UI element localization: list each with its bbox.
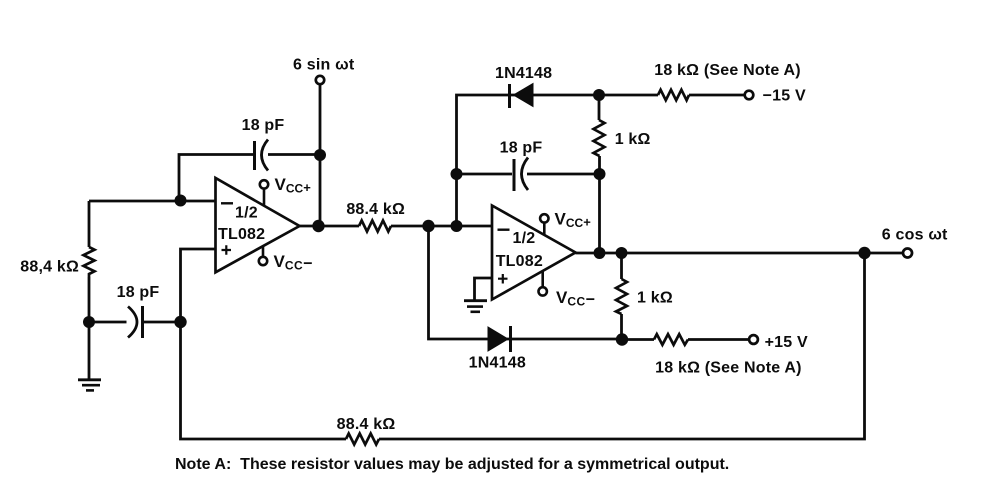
op-amp U1 1/2 TL082 [216, 178, 300, 272]
svg-text:18 kΩ (See Note A): 18 kΩ (See Note A) [654, 62, 801, 79]
svg-text:1/2: 1/2 [235, 205, 258, 222]
resistor 18 kOhm (lower, See Note A) [654, 334, 802, 376]
node junction mid cap left [451, 168, 463, 180]
svg-text:88,4 kΩ: 88,4 kΩ [20, 259, 79, 276]
svg-text:TL082: TL082 [218, 226, 265, 243]
pin VCC- U1 [259, 246, 313, 273]
wire U1 output to R mid [300, 225, 493, 228]
resistor 88.4 kOhm (bottom feedback) [337, 416, 396, 445]
diode D2 1N4148 (lower) [469, 326, 526, 372]
svg-text:1N4148: 1N4148 [469, 355, 526, 372]
pin VCC+ U2 [540, 210, 591, 235]
pin VCC- U2 [539, 271, 596, 309]
terminal -15 V [745, 88, 806, 105]
ground symbol left [78, 380, 101, 391]
op-amp U2 1/2 TL082 [492, 206, 576, 300]
wire 1 kOhm lower branch [620, 253, 623, 339]
node junction U1 output [312, 220, 324, 232]
resistor 88,4 kOhm (left) [20, 247, 94, 277]
terminal +15 V [749, 334, 808, 351]
terminal 6 sin wt [293, 57, 355, 85]
svg-text:88.4 kΩ: 88.4 kΩ [337, 416, 396, 433]
svg-text:88.4 kΩ: 88.4 kΩ [346, 201, 405, 218]
svg-text:−15 V: −15 V [763, 88, 806, 105]
pin VCC+ U1 [260, 175, 311, 205]
wire upper branch vertical and top diode row [457, 95, 600, 226]
node junction left cap row [83, 316, 95, 328]
resistor 1 kOhm (lower) [616, 279, 673, 314]
wire ground lead left [88, 322, 91, 380]
wire left branch vertical [88, 201, 91, 322]
svg-text:6 cos ωt: 6 cos ωt [882, 227, 948, 244]
svg-text:1 kΩ: 1 kΩ [637, 290, 673, 307]
capacitor C2 18 pF (lower left) [117, 284, 160, 338]
terminal 6 cos wt [882, 227, 948, 258]
wire sin terminal to op-amp U1 output node [319, 85, 322, 226]
wire U2 output row [576, 252, 903, 255]
svg-text:1N4148: 1N4148 [495, 65, 552, 82]
node junction cos branch [858, 247, 870, 259]
wire top row to -15V [599, 94, 745, 97]
node junction cap branch left [451, 220, 463, 232]
capacitor C3 18 pF (U2 feedback) [500, 140, 543, 192]
ground symbol U2 [464, 301, 487, 312]
svg-text:+15 V: +15 V [765, 334, 808, 351]
diode D1 1N4148 (upper) [495, 65, 552, 108]
wire lower diode branch [429, 226, 623, 339]
node junction top row [593, 89, 605, 101]
wire noninverting input U1 down and bottom feedback run [181, 249, 865, 439]
resistor 18 kOhm (upper, See Note A) [654, 62, 801, 100]
wire U2 noninverting to ground [475, 278, 493, 300]
resistor 1 kOhm (upper) [594, 120, 651, 156]
node junction C1 right at sin wire [314, 149, 326, 161]
svg-text:6 sin ωt: 6 sin ωt [293, 57, 355, 74]
svg-text:TL082: TL082 [496, 253, 543, 270]
svg-text:18 pF: 18 pF [242, 117, 285, 134]
wire 1 kOhm branch vertical [598, 95, 601, 253]
svg-text:18 pF: 18 pF [500, 140, 543, 157]
capacitor C1 18 pF (top feedback) [242, 117, 285, 171]
node junction mid cap right [594, 168, 606, 180]
svg-text:18 kΩ (See Note A): 18 kΩ (See Note A) [655, 360, 802, 377]
wire lower row to +15V [622, 338, 749, 341]
note A text [175, 456, 729, 473]
svg-text:18 pF: 18 pF [117, 284, 160, 301]
node junction output left [594, 247, 606, 259]
wire top feedback (cap C1 row) [179, 155, 320, 202]
wire inverting input U1 [89, 200, 216, 203]
svg-text:Note A: These resistor values: Note A: These resistor values may be adj… [175, 456, 729, 473]
node junction C2 right [174, 316, 186, 328]
node junction output right [616, 247, 628, 259]
wire cap C2 row [89, 321, 181, 324]
node junction inverting input U1 [175, 195, 187, 207]
resistor 88.4 kOhm (interstage) [346, 201, 405, 232]
svg-text:1/2: 1/2 [513, 230, 536, 247]
svg-text:1 kΩ: 1 kΩ [615, 131, 651, 148]
wire mid cap row [457, 173, 600, 176]
node junction lower diode row [616, 333, 628, 345]
node junction diode branch left [422, 220, 434, 232]
